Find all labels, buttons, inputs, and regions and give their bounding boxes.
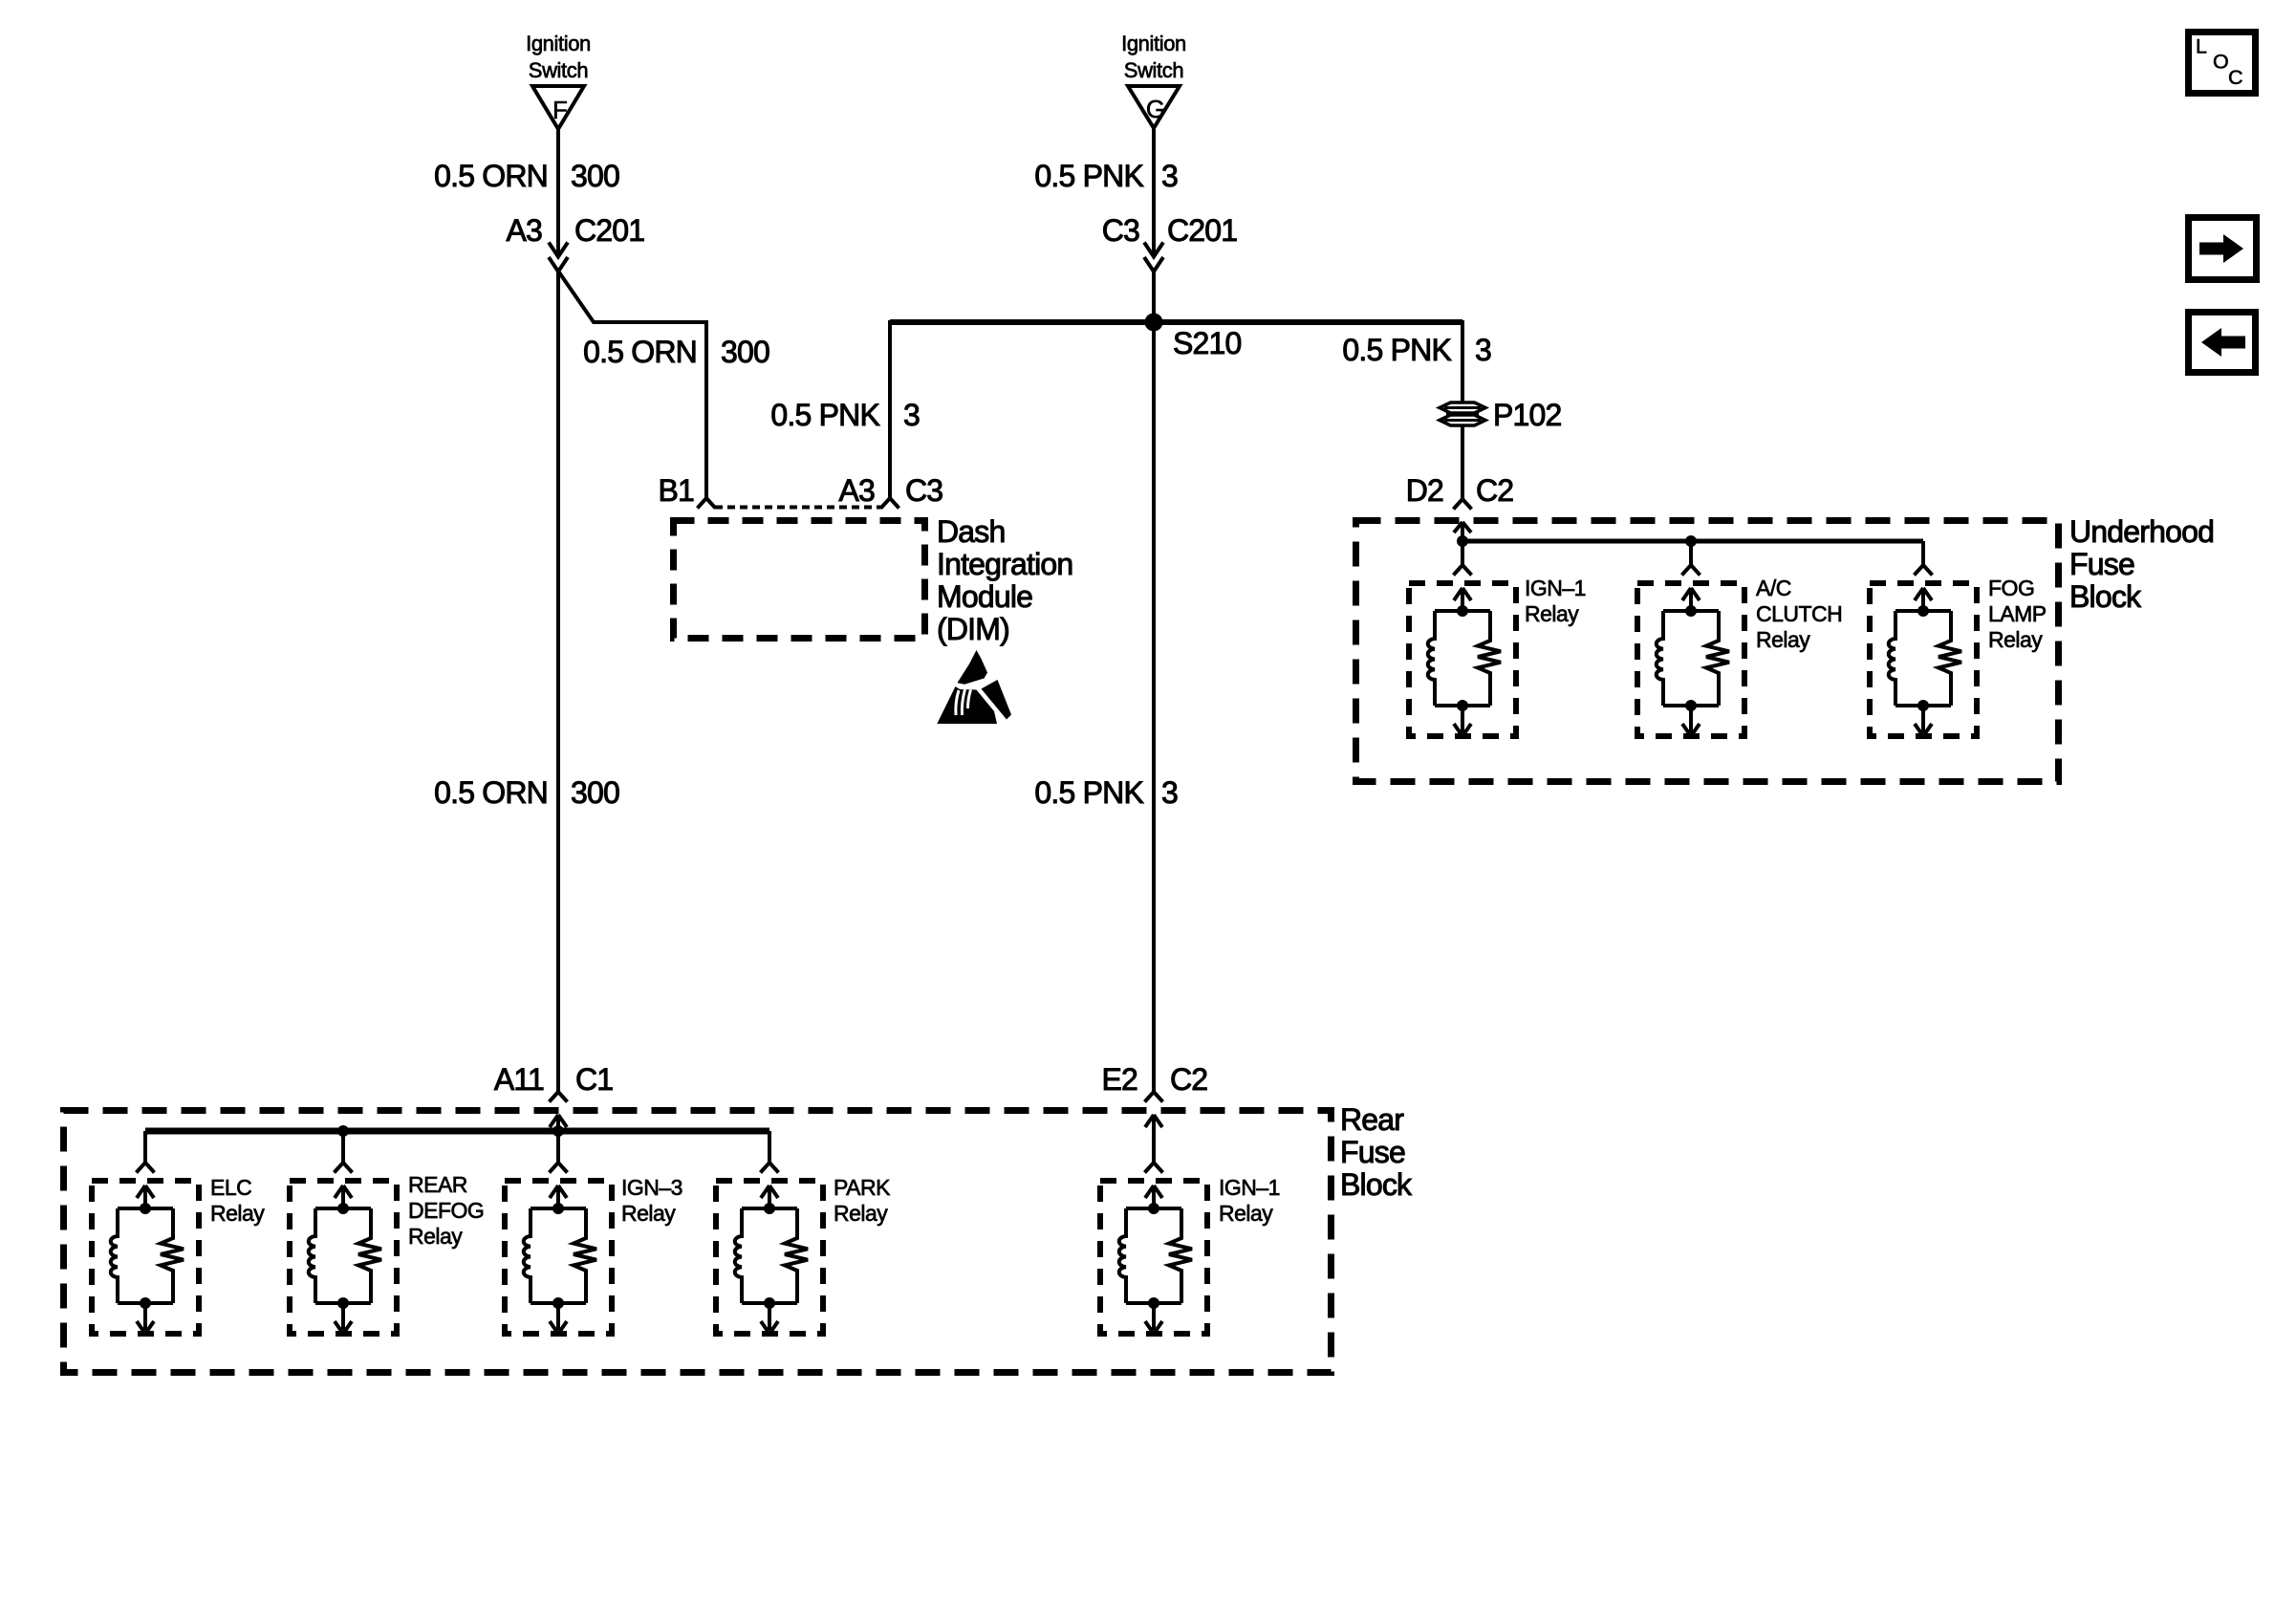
svg-text:(DIM): (DIM) bbox=[937, 612, 1009, 646]
svg-text:ELC: ELC bbox=[210, 1175, 251, 1200]
svg-text:L: L bbox=[2196, 35, 2207, 58]
svg-text:Underhood: Underhood bbox=[2069, 514, 2214, 549]
svg-text:3: 3 bbox=[1161, 775, 1178, 810]
svg-text:Relay: Relay bbox=[1756, 627, 1810, 652]
svg-text:Switch: Switch bbox=[529, 58, 588, 82]
svg-text:A3: A3 bbox=[838, 473, 875, 508]
svg-text:A11: A11 bbox=[494, 1062, 544, 1097]
svg-text:C201: C201 bbox=[1167, 213, 1237, 248]
svg-text:Rear: Rear bbox=[1340, 1102, 1404, 1137]
svg-text:0.5 PNK: 0.5 PNK bbox=[1034, 159, 1143, 193]
svg-text:C: C bbox=[2228, 66, 2243, 89]
svg-text:300: 300 bbox=[721, 335, 769, 369]
svg-text:Block: Block bbox=[2069, 579, 2142, 614]
svg-text:C1: C1 bbox=[575, 1062, 613, 1097]
svg-text:0.5 ORN: 0.5 ORN bbox=[434, 775, 548, 810]
svg-text:S210: S210 bbox=[1173, 326, 1242, 360]
svg-text:Relay: Relay bbox=[408, 1224, 463, 1249]
svg-text:Block: Block bbox=[1340, 1167, 1413, 1202]
svg-text:Relay: Relay bbox=[210, 1201, 265, 1226]
svg-text:Ignition: Ignition bbox=[1121, 32, 1186, 55]
svg-text:0.5 PNK: 0.5 PNK bbox=[1034, 775, 1143, 810]
svg-text:Dash: Dash bbox=[937, 514, 1006, 549]
svg-text:Relay: Relay bbox=[1988, 627, 2043, 652]
svg-text:0.5 ORN: 0.5 ORN bbox=[434, 159, 548, 193]
svg-text:REAR: REAR bbox=[408, 1172, 467, 1197]
svg-text:3: 3 bbox=[903, 398, 920, 432]
svg-text:0.5 ORN: 0.5 ORN bbox=[583, 335, 697, 369]
svg-text:IGN–1: IGN–1 bbox=[1525, 576, 1586, 600]
svg-text:A3: A3 bbox=[506, 213, 542, 248]
svg-text:A/C: A/C bbox=[1756, 576, 1791, 600]
svg-text:DEFOG: DEFOG bbox=[408, 1198, 484, 1223]
svg-text:C201: C201 bbox=[574, 213, 644, 248]
svg-text:FOG: FOG bbox=[1988, 576, 2034, 600]
svg-text:Integration: Integration bbox=[937, 547, 1072, 581]
svg-text:IGN–1: IGN–1 bbox=[1219, 1175, 1280, 1200]
svg-text:E2: E2 bbox=[1101, 1062, 1137, 1097]
svg-text:G: G bbox=[1146, 95, 1165, 123]
svg-text:3: 3 bbox=[1475, 333, 1491, 367]
svg-text:Relay: Relay bbox=[1525, 601, 1579, 626]
svg-text:LAMP: LAMP bbox=[1988, 601, 2047, 626]
svg-text:Ignition: Ignition bbox=[526, 32, 591, 55]
svg-text:Relay: Relay bbox=[1219, 1201, 1273, 1226]
svg-text:Fuse: Fuse bbox=[2069, 547, 2134, 581]
svg-text:Relay: Relay bbox=[834, 1201, 888, 1226]
svg-text:Relay: Relay bbox=[621, 1201, 676, 1226]
svg-text:F: F bbox=[552, 96, 568, 124]
svg-text:300: 300 bbox=[571, 159, 619, 193]
svg-text:0.5 PNK: 0.5 PNK bbox=[770, 398, 879, 432]
svg-text:C2: C2 bbox=[1476, 473, 1513, 508]
svg-text:Fuse: Fuse bbox=[1340, 1135, 1405, 1169]
svg-text:C3: C3 bbox=[1102, 213, 1139, 248]
svg-text:CLUTCH: CLUTCH bbox=[1756, 601, 1842, 626]
svg-text:0.5 PNK: 0.5 PNK bbox=[1342, 333, 1451, 367]
svg-text:300: 300 bbox=[571, 775, 619, 810]
svg-text:3: 3 bbox=[1161, 159, 1178, 193]
svg-text:O: O bbox=[2213, 51, 2229, 74]
svg-text:C3: C3 bbox=[905, 473, 942, 508]
svg-text:P102: P102 bbox=[1493, 398, 1562, 432]
svg-text:B1: B1 bbox=[658, 473, 694, 508]
svg-text:PARK: PARK bbox=[834, 1175, 891, 1200]
svg-text:C2: C2 bbox=[1170, 1062, 1207, 1097]
svg-text:IGN–3: IGN–3 bbox=[621, 1175, 682, 1200]
svg-text:D2: D2 bbox=[1406, 473, 1443, 508]
svg-text:Switch: Switch bbox=[1124, 58, 1183, 82]
svg-text:Module: Module bbox=[937, 579, 1032, 614]
